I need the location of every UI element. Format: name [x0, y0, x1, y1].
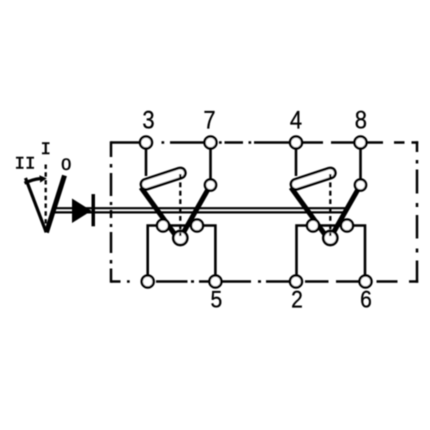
mechanical link double line: [53, 208, 348, 212]
wire from terminal 8: [359, 143, 362, 182]
movable contact right pole 2: [330, 185, 360, 238]
switch enclosure frame left edge: [110, 141, 113, 282]
terminal 6: [360, 276, 372, 288]
pivot node pole 1: [173, 231, 187, 245]
movable contact right pole 1: [180, 185, 210, 238]
detent latch bar: [92, 194, 96, 226]
fixed contact right pole 2: [341, 220, 353, 232]
pivot axis pole 2 dashed: [329, 174, 331, 236]
rotation direction arrow: [25, 175, 47, 183]
rocker knob pole 2: [290, 167, 337, 191]
terminal 8: [355, 137, 367, 149]
terminal 7: [205, 137, 217, 149]
svg-text:II: II: [14, 155, 35, 175]
wire from terminal 3: [145, 143, 148, 177]
contact node under terminal 8: [355, 179, 366, 190]
switch enclosure frame top edge: [111, 141, 418, 144]
movable contact left pole 1: [141, 188, 179, 240]
actuator arm position II: [26, 178, 47, 232]
detent latch triangle: [72, 199, 92, 224]
switch enclosure frame bottom edge: [111, 280, 418, 283]
fixed contact left pole 1: [157, 220, 169, 232]
actuator axis position I dashed: [45, 165, 47, 229]
svg-text:7: 7: [203, 106, 215, 134]
svg-text:2: 2: [291, 286, 303, 313]
pivot axis pole 1 dashed: [179, 174, 181, 236]
fixed contact left pole 2: [307, 220, 319, 232]
actuator arm position 0: [46, 176, 64, 233]
pivot node pole 2: [323, 231, 337, 245]
movable contact left pole 2: [291, 188, 329, 240]
terminal 4: [290, 137, 302, 149]
terminal 3: [140, 137, 152, 149]
terminal blank bottom left: [142, 276, 154, 288]
wire from terminal 4: [295, 143, 298, 177]
svg-text:6: 6: [360, 286, 372, 313]
contact bridge frame pole 2: [297, 226, 366, 282]
svg-text:4: 4: [290, 106, 302, 134]
fixed contact right pole 1: [191, 220, 203, 232]
contact node under terminal 7: [205, 179, 216, 190]
wire from terminal 7: [209, 143, 212, 182]
svg-text:0: 0: [61, 154, 71, 174]
svg-text:5: 5: [211, 286, 223, 313]
svg-text:8: 8: [355, 106, 367, 134]
switch enclosure frame right edge: [416, 141, 419, 282]
svg-text:3: 3: [142, 106, 154, 134]
svg-text:I: I: [41, 140, 52, 160]
rocker knob pole 1: [140, 167, 187, 191]
contact bridge frame pole 1: [148, 226, 216, 282]
terminal 5: [209, 276, 221, 288]
terminal 2: [290, 276, 302, 288]
